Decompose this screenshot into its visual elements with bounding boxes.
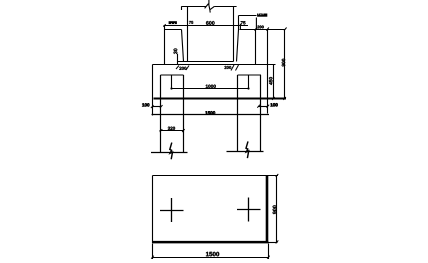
right dim line continuation [256,29,286,31]
cup outer right wall [255,30,257,65]
tick cup-left ledge dim [163,24,165,27]
100 dim left [153,106,162,108]
tick cavity-left dim end [186,66,189,71]
tick 900 dim bottom [283,97,286,100]
cavity floor top line [178,61,234,63]
tick 320 dim right [182,129,185,132]
right break zigzag [246,141,249,158]
slab bottom / dim line [152,114,270,116]
text 1500 section [205,111,215,114]
tick 100 dim left a [151,105,154,108]
900 dim line [284,30,286,99]
tick plan 900 dim bottom [276,240,279,243]
extension from 200 blob to cup corner [255,18,257,30]
cup outer left wall [164,26,166,65]
text 1000 [206,85,216,88]
tick 100 dim right a [257,105,260,108]
extension line right (socket wall) [233,7,235,62]
text 450 rotated [269,77,272,85]
step2 top / cavity floor bottom [153,64,276,66]
text 600 [206,21,214,25]
left pile edges (elevation) [160,75,162,152]
text 1500 plan [206,252,219,256]
tick plan 1500 dim right [267,256,270,259]
plan plus marker left [160,198,184,222]
tick at 75 dim right end [239,24,241,30]
tick 200 chain a [254,28,257,31]
text 100 right [270,103,277,106]
100 dim right [259,106,268,108]
left break zigzag [170,143,173,160]
text 30 rotated [174,49,178,54]
cup top face / dim line [164,25,249,27]
320 dim (left pile) [160,130,184,132]
step2 left edge [152,65,154,116]
text 900 rotated plan [273,205,277,214]
text 200 cavity left [179,67,186,70]
socket left taper [182,30,184,62]
tick plan 1500 dim left [151,256,154,259]
break symbol (top) [205,0,215,13]
left ledge lower line [165,29,182,31]
tick 450 dim bottom [272,97,275,100]
text 200 right chain [257,26,263,29]
right pile edges (elevation) [237,75,239,152]
right ledge lower line + right dim line y=29.5 [240,29,286,31]
dimension texts [142,14,285,257]
right upper stub vertical [238,16,240,30]
tick cavity-right dim end [236,65,239,71]
slab top (thick, ground line) [154,98,287,100]
step2 right edge [267,65,269,114]
tick 100 dim right b [267,105,270,108]
socket right taper [237,30,239,62]
text 320 [168,127,175,130]
tick 200 chain b [266,28,269,31]
text 200 cavity right [224,66,231,69]
200 blob top-left [169,21,177,24]
dim stub 200 (upper right) [239,15,257,17]
tick 200 chain c [284,28,287,31]
tick cavity-right dim start [231,65,234,71]
top break dimension line [181,7,236,11]
30 dim pointer [177,54,179,65]
oblique dimension ticks [151,24,287,259]
tick cavity-left dim start [176,66,179,70]
right pile top [238,74,262,76]
plan 1500 dim [153,244,269,260]
extension line left (socket wall) [187,7,189,62]
text 75 right [241,21,246,24]
right pile break line [227,151,264,153]
tick plan 900 dim top [276,174,279,177]
step2 right extension [267,30,269,65]
tick 100 dim left b [160,105,163,108]
left pile break line [151,152,188,154]
plan plus marker right [237,198,261,222]
text 100 left [142,103,149,106]
450 dim line [273,65,275,99]
text 900 rotated section [282,59,285,67]
200 blob upper-right [257,14,267,17]
1000 dim between pile centers [172,75,249,89]
left pile top [161,74,184,76]
tick 320 dim left [160,129,163,132]
text 75 left [189,21,193,24]
plan 900 dim [276,176,278,243]
plan view rectangle [153,175,279,177]
